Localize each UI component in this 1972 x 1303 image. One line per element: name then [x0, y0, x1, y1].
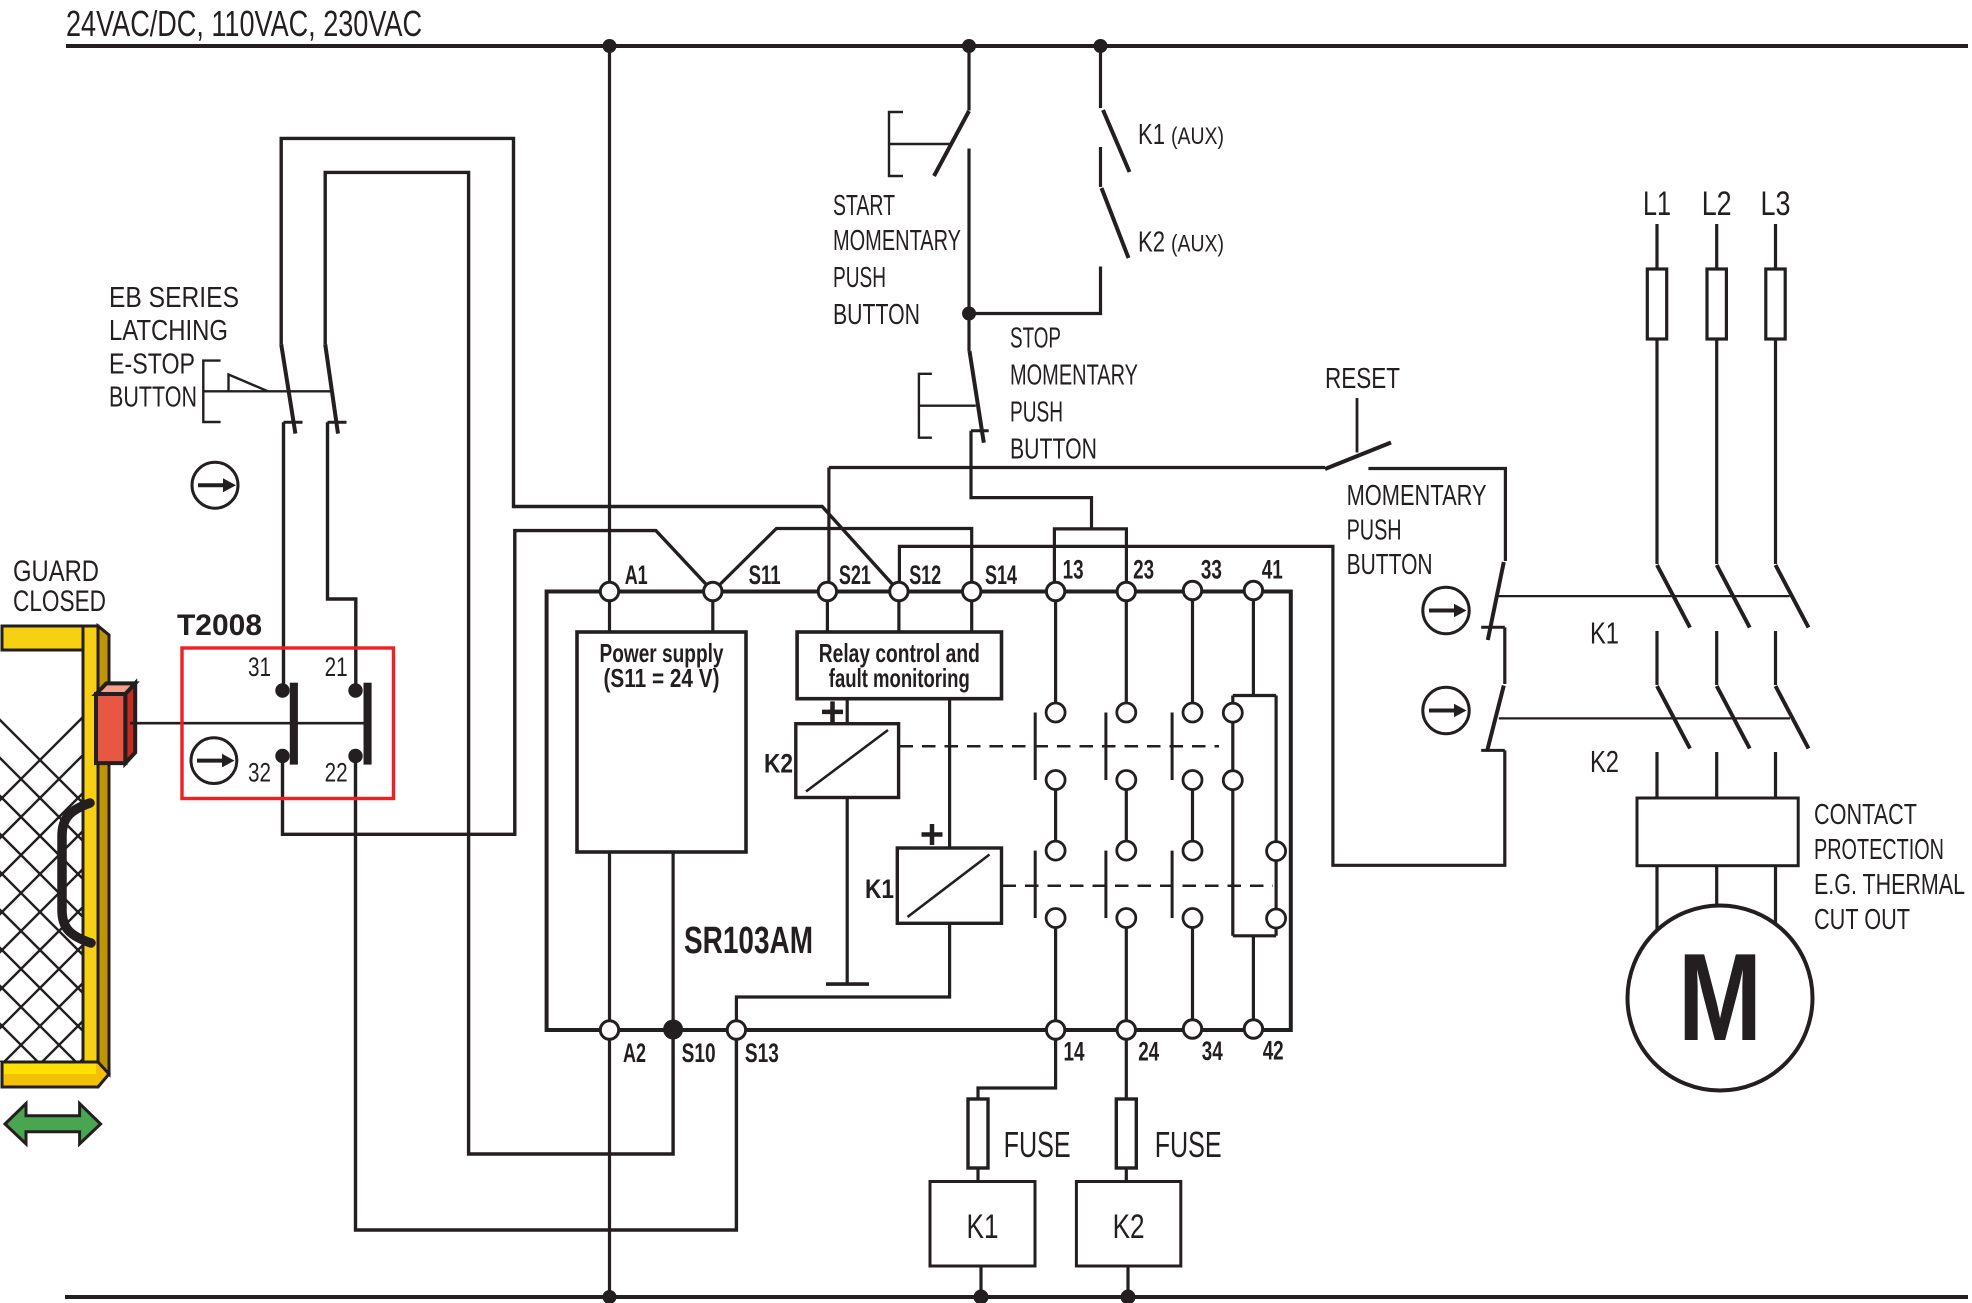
- wire: phase L3 feeder: [1774, 224, 1777, 564]
- wire: actuator link from red block to T2008: [130, 722, 364, 725]
- svg-text:24: 24: [1138, 1037, 1159, 1067]
- contact column 13-14 wires: [1054, 600, 1057, 1021]
- wire: power supply to S10: [671, 852, 674, 1021]
- svg-text:K1: K1: [1138, 119, 1165, 151]
- svg-text:22: 22: [325, 758, 348, 788]
- svg-text:(S11 = 24 V): (S11 = 24 V): [604, 663, 720, 693]
- label: terminal names bottom row: [623, 1036, 1284, 1069]
- label: terminal names top row: [625, 555, 1283, 591]
- svg-text:23: 23: [1133, 555, 1154, 585]
- wire: S21 to RESET switch left contact: [829, 466, 1325, 469]
- svg-text:S21: S21: [839, 560, 871, 590]
- svg-text:FUSE: FUSE: [1004, 1124, 1071, 1165]
- node: terminal 31 dot: [275, 683, 289, 697]
- svg-text:K1: K1: [1590, 616, 1619, 651]
- svg-text:K1: K1: [865, 874, 894, 904]
- svg-text:K1: K1: [967, 1208, 999, 1246]
- node: terminal 21 dot: [348, 683, 362, 697]
- svg-text:E.G. THERMAL: E.G. THERMAL: [1814, 869, 1965, 901]
- guard door: right bar dark 3D face: [98, 626, 109, 1074]
- contactor K2 pole 1 blade: [1657, 686, 1690, 749]
- dashed link: K2 coil to contact columns: [900, 745, 1220, 748]
- guard door: yellow frame bottom bar: [2, 1062, 109, 1087]
- wire: power supply to A2: [608, 852, 611, 1021]
- contact column 33-34 K2-row blade: [1171, 713, 1174, 781]
- svg-text:A2: A2: [623, 1038, 646, 1068]
- wire: phase drops from protection to motor: [1657, 866, 1776, 933]
- switch: START momentary push button NO contact blade: [934, 111, 969, 176]
- wire: S11 riser into power supply box: [711, 600, 714, 632]
- svg-text:EB SERIES: EB SERIES: [109, 282, 239, 314]
- wire: link between K1 AUX and K2 AUX: [1099, 147, 1102, 187]
- svg-text:L2: L2: [1702, 185, 1732, 223]
- svg-text:SR103AM: SR103AM: [684, 920, 813, 962]
- svg-text:A1: A1: [625, 560, 648, 590]
- wire: mechanical tie from upper contact to K1 contactor line: [1498, 595, 1789, 597]
- node: junction top bus / A1 riser: [603, 39, 617, 53]
- wire: S14 riser into relay control box: [970, 600, 973, 632]
- wire: A1 riser from top bus down to terminal A1: [608, 46, 611, 583]
- svg-text:PUSH: PUSH: [833, 262, 886, 294]
- node: junction START / K2 AUX / STOP: [962, 307, 976, 321]
- svg-text:PUSH: PUSH: [1010, 397, 1063, 429]
- svg-text:CUT OUT: CUT OUT: [1814, 904, 1910, 936]
- wire: between the two push button contacts: [1503, 627, 1506, 684]
- wire: bracket over terminals 13 and 23: [1054, 529, 1126, 592]
- fuse: L3 line fuse: [1766, 269, 1785, 339]
- wire: terminal 14 to fuse jog: [978, 1039, 1056, 1099]
- symbol: actuation-direction arrow circle inside T2008: [191, 738, 237, 784]
- wire: K1 coil to bottom bus: [979, 1266, 982, 1297]
- wire: channel-1 outer loop (S12 to E-stop contact 1): [281, 138, 899, 591]
- svg-text:FUSE: FUSE: [1155, 1124, 1222, 1165]
- contact column 23-24 K1-row blade: [1104, 851, 1107, 918]
- fuse: K2 coil fuse: [1116, 1099, 1136, 1168]
- T2008 safety switch red outline box: [182, 648, 394, 799]
- wire: S21 riser into relay control box: [826, 600, 829, 632]
- svg-text:PUSH: PUSH: [1347, 515, 1402, 547]
- circles: contact fixed points column 33-34: [1183, 703, 1202, 722]
- symbol: RESET actuator stem: [1356, 398, 1359, 453]
- wire: relay control output to K1 coil: [948, 699, 951, 848]
- symbol: E-stop actuator bracket with latch wedge: [203, 361, 331, 422]
- contact column 41-42 NC loop wires: [1233, 600, 1276, 1021]
- svg-text:MOMENTARY: MOMENTARY: [833, 225, 961, 257]
- svg-text:GUARD: GUARD: [13, 555, 99, 588]
- svg-text:BUTTON: BUTTON: [1347, 549, 1433, 581]
- svg-text:START: START: [833, 190, 895, 222]
- svg-text:LATCHING: LATCHING: [109, 315, 228, 347]
- svg-text:L1: L1: [1643, 185, 1671, 223]
- wire: T2008 terminal 32 down and right to channel-1 return riser: [283, 531, 713, 835]
- svg-text:31: 31: [248, 652, 271, 682]
- wire: fuse to K2 coil box: [1125, 1168, 1128, 1182]
- svg-text:BUTTON: BUTTON: [833, 299, 920, 331]
- wire: phase links between K1 and K2 contactors: [1657, 631, 1776, 685]
- svg-text:S12: S12: [909, 560, 941, 590]
- switch: E-STOP NC contact 1 blade: [281, 344, 295, 433]
- guard door: red actuator block right face: [125, 683, 135, 763]
- svg-text:21: 21: [325, 652, 348, 682]
- node: terminal 22 dot: [348, 749, 362, 763]
- switch: STOP momentary push button NC blade: [970, 351, 984, 443]
- contact column 23-24 wires: [1125, 600, 1128, 1021]
- node: junction top bus / K1 AUX riser: [1094, 39, 1108, 53]
- wire: K2 AUX lower terminal, corner to START/STOP junction: [969, 267, 1101, 314]
- node: terminal 32 dot: [275, 749, 289, 763]
- wire: top supply bus 24VAC: [66, 44, 1968, 48]
- wire: junction down to STOP contact: [967, 314, 970, 352]
- svg-text:34: 34: [1202, 1036, 1223, 1066]
- svg-text:24VAC/DC, 110VAC, 230VAC: 24VAC/DC, 110VAC, 230VAC: [66, 3, 422, 44]
- guard door: yellow frame right bar with 3D side: [83, 626, 109, 1074]
- symbol: lower contact fixed tick: [1481, 749, 1505, 752]
- wire: phase drops into thermal protection: [1657, 752, 1776, 798]
- contactor K2 pole 2 blade: [1717, 686, 1750, 749]
- svg-text:(AUX): (AUX): [1171, 231, 1224, 258]
- svg-text:K2: K2: [1138, 227, 1165, 259]
- wire: phase L1 feeder: [1655, 224, 1658, 564]
- guard door: red actuator block front face: [96, 694, 125, 763]
- svg-text:CLOSED: CLOSED: [13, 585, 106, 618]
- contact: momentary push button lower NO blade: [1487, 686, 1504, 752]
- guard door: black handle: [62, 803, 91, 943]
- wire: bottom return bus: [65, 1295, 1968, 1299]
- svg-text:MOMENTARY: MOMENTARY: [1010, 360, 1138, 392]
- symbol: STOP push-button actuator bracket: [919, 374, 976, 438]
- svg-text:CONTACT: CONTACT: [1814, 799, 1917, 831]
- wire: K1 AUX riser from top bus: [1099, 46, 1102, 108]
- node: junction A2 / bottom bus: [603, 1290, 617, 1303]
- wire: K2 coil to ground: [846, 798, 849, 985]
- relay coil K2 box with diagonal: [796, 724, 899, 798]
- wire: A1 riser into power supply box: [608, 600, 611, 632]
- svg-text:S13: S13: [745, 1038, 779, 1068]
- terminal circles on SR103AM top edge: A1 S11 S21 S12 S14 13 23 33 41: [600, 581, 1262, 600]
- contact column 23-24 K2-row blade: [1104, 713, 1107, 781]
- svg-text:42: 42: [1263, 1036, 1284, 1066]
- wire: STOP output down then right to 13/23 feed: [971, 431, 1092, 529]
- symbol: upper contact lower fixed tick: [1481, 626, 1505, 629]
- switch: RESET NO blade: [1325, 443, 1391, 470]
- contact: momentary push button upper NO blade: [1488, 562, 1504, 640]
- guard door: wire mesh crosshatch: [0, 560, 240, 1303]
- wire: terminal 24 down to fuse: [1125, 1039, 1128, 1099]
- wire: S12 riser into relay control box: [897, 600, 900, 632]
- svg-text:K2: K2: [1113, 1208, 1145, 1246]
- svg-text:S10: S10: [682, 1038, 716, 1068]
- terminal circles on SR103AM bottom edge: A2 S13 14 24 34 42: [600, 1020, 1262, 1039]
- svg-text:S14: S14: [985, 560, 1017, 590]
- svg-text:fault monitoring: fault monitoring: [829, 663, 970, 693]
- wire: A2 down to bottom bus: [608, 1039, 611, 1297]
- relay coil K1 box with diagonal: [897, 848, 1001, 923]
- wire: E-stop contact 1 to T2008 terminal 31: [282, 422, 285, 683]
- svg-text:K2: K2: [764, 749, 793, 779]
- svg-text:M: M: [1678, 929, 1762, 1067]
- wire: mechanical tie from lower contact to K2 contactor line: [1499, 717, 1790, 719]
- svg-text:(AUX): (AUX): [1171, 123, 1224, 150]
- contact column 13-14 K1-row blade: [1034, 851, 1037, 918]
- contactor K1 pole 1 blade: [1657, 565, 1690, 628]
- box: contact protection thermal cut out: [1637, 798, 1798, 866]
- svg-text:BUTTON: BUTTON: [1010, 434, 1097, 466]
- svg-text:41: 41: [1262, 555, 1283, 585]
- switch: E-STOP NC contact 2 blade: [325, 344, 338, 433]
- wire: channel-2 inner loop (S10 riser to E-stop contact 2): [325, 172, 673, 1154]
- wire: fuse to K1 coil box: [976, 1168, 979, 1182]
- svg-text:T2008: T2008: [177, 609, 262, 642]
- contact column 33-34 wires: [1191, 600, 1194, 1021]
- svg-text:33: 33: [1201, 555, 1222, 585]
- svg-text:E-STOP: E-STOP: [109, 349, 195, 381]
- symbol: actuation-direction arrow circle below E-stop: [192, 462, 238, 508]
- svg-text:BUTTON: BUTTON: [109, 382, 197, 414]
- contact: K2 AUX NO blade: [1102, 188, 1129, 258]
- wire: RESET right contact to push-button chain: [1368, 469, 1505, 562]
- svg-text:S11: S11: [749, 560, 781, 590]
- guard door: red actuator block top face: [96, 683, 135, 694]
- fuse: L1 line fuse: [1647, 269, 1666, 339]
- wire: T2008 terminal 22 down to S13 return: [356, 763, 737, 1230]
- symbol: plus sign at K2 coil: [822, 701, 843, 722]
- svg-text:14: 14: [1064, 1037, 1085, 1067]
- motor: M circle: [1628, 906, 1813, 1091]
- contact: T2008 contact 21-22 thick bar: [364, 683, 372, 765]
- symbol: plus sign at K1 coil: [922, 824, 943, 845]
- guard door: yellow frame top bar: [2, 626, 98, 650]
- svg-text:RESET: RESET: [1325, 363, 1400, 395]
- contact column 33-34 K1-row blade: [1171, 851, 1174, 918]
- coil: contactor K1 coil box: [930, 1182, 1035, 1267]
- wire: K2 coil to bottom bus: [1126, 1266, 1129, 1297]
- symbol: E-stop contact 1 lower fixed tick: [284, 421, 303, 424]
- node: junction K2 coil / bottom bus: [1121, 1290, 1136, 1303]
- symbol: START push-button actuator bracket: [889, 112, 950, 176]
- module: relay control and fault monitoring box: [797, 632, 1001, 699]
- dashed link: K1 coil to contact columns: [1003, 884, 1274, 887]
- fuse: L2 line fuse: [1707, 269, 1726, 339]
- circles: contact fixed points column 23-24: [1117, 703, 1136, 722]
- symbol: E-stop contact 2 lower fixed tick: [328, 421, 347, 424]
- wire: S21 riser up to RESET line: [827, 468, 830, 584]
- symbol: push-direction arrow circle lower: [1423, 687, 1469, 733]
- circles: contact fixed points column 13-14: [1046, 703, 1286, 928]
- wire: relay control output to K2 coil: [846, 699, 849, 724]
- symbol: STOP lower fixed-contact tick: [971, 429, 989, 432]
- svg-text:13: 13: [1063, 555, 1084, 585]
- wire: E-stop contact 2 down, jog right, down to T2008 terminal 21: [328, 422, 356, 683]
- symbol: push-direction arrow circle upper: [1423, 587, 1469, 633]
- svg-text:STOP: STOP: [1010, 323, 1061, 355]
- wire: phase L2 feeder: [1715, 224, 1718, 564]
- guard door: bottom bar light top strip: [4, 1064, 96, 1075]
- symbol: E-stop latching wedge triangle: [229, 375, 269, 392]
- wire: S11 to S14 jumper: [713, 529, 972, 592]
- contactor K2 pole 3 blade: [1776, 686, 1809, 749]
- svg-text:MOMENTARY: MOMENTARY: [1347, 480, 1487, 512]
- contactor K1 pole 3 blade: [1776, 565, 1809, 628]
- wire: K1 coil bottom to S13: [736, 923, 949, 1021]
- contactor K1 pole 2 blade: [1717, 565, 1750, 628]
- svg-text:PROTECTION: PROTECTION: [1814, 834, 1944, 866]
- svg-text:K2: K2: [1590, 744, 1619, 779]
- svg-text:32: 32: [248, 758, 271, 788]
- svg-text:L3: L3: [1761, 185, 1791, 223]
- wire: START riser from top bus: [967, 46, 970, 111]
- node: terminal S10 filled: [663, 1020, 683, 1040]
- wire: push button chain bottom return to S12: [899, 546, 1504, 865]
- SR103AM safety relay outline box: [547, 592, 1291, 1031]
- circles: contact fixed points column 41-42: [1223, 703, 1242, 722]
- ground symbol: [826, 982, 869, 986]
- contact: K1 AUX NO blade: [1103, 110, 1130, 172]
- module: power supply box: [577, 632, 746, 852]
- fuse: K1 coil fuse: [968, 1099, 988, 1168]
- coil: contactor K2 coil box: [1076, 1182, 1180, 1267]
- node: junction top bus / START riser: [962, 39, 976, 53]
- wire: START lower terminal down to junction: [967, 149, 970, 314]
- symbol: green movement double arrow: [5, 1104, 101, 1144]
- node: junction K1 coil / bottom bus: [974, 1290, 989, 1303]
- contact: T2008 contact 31-32 thick bar: [290, 683, 298, 765]
- contact column 13-14 K2-row blade: [1034, 713, 1037, 781]
